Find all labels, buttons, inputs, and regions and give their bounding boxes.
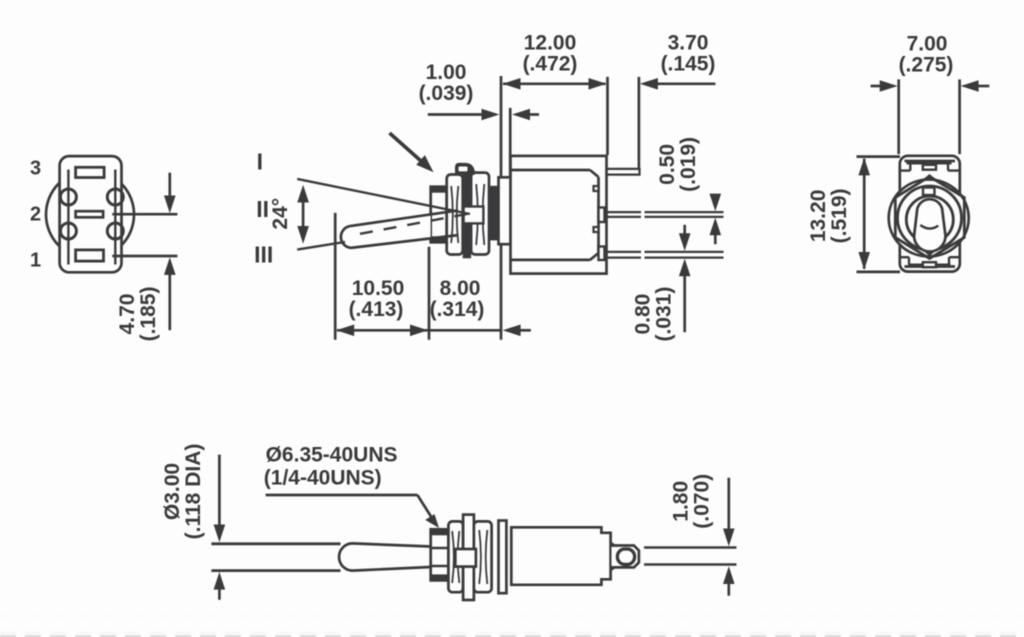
svg-text:(.413): (.413) [349,298,404,321]
svg-text:(.039): (.039) [419,82,474,105]
svg-text:24°: 24° [269,198,292,230]
svg-text:III: III [254,242,273,268]
svg-text:(.145): (.145) [661,53,716,76]
svg-text:1: 1 [30,249,41,271]
svg-text:II: II [256,196,269,222]
svg-text:(.070): (.070) [691,474,714,529]
svg-text:3.70: 3.70 [668,32,709,55]
svg-text:12.00: 12.00 [524,32,577,55]
svg-text:Ø3.00: Ø3.00 [161,463,184,520]
svg-text:(.185): (.185) [137,287,160,342]
svg-text:(.519): (.519) [828,188,851,243]
svg-text:(.118 DIA): (.118 DIA) [182,444,205,540]
svg-text:I: I [257,149,263,175]
svg-text:4.70: 4.70 [116,294,139,335]
svg-text:(.019): (.019) [677,137,700,192]
svg-text:1.00: 1.00 [426,61,467,84]
svg-text:8.00: 8.00 [440,277,481,300]
svg-text:13.20: 13.20 [807,190,830,243]
svg-text:2: 2 [30,203,41,225]
svg-text:(1/4-40UNS): (1/4-40UNS) [264,467,382,490]
svg-text:(.275): (.275) [899,54,954,77]
svg-text:1.80: 1.80 [670,481,693,522]
svg-text:3: 3 [30,158,41,180]
svg-text:0.50: 0.50 [656,144,679,185]
svg-text:(.314): (.314) [430,298,485,321]
svg-text:(.472): (.472) [523,53,578,76]
svg-text:10.50: 10.50 [352,277,405,300]
svg-text:7.00: 7.00 [907,33,948,56]
svg-text:(.031): (.031) [652,287,675,342]
svg-text:Ø6.35-40UNS: Ø6.35-40UNS [266,444,398,467]
svg-text:0.80: 0.80 [631,294,654,335]
